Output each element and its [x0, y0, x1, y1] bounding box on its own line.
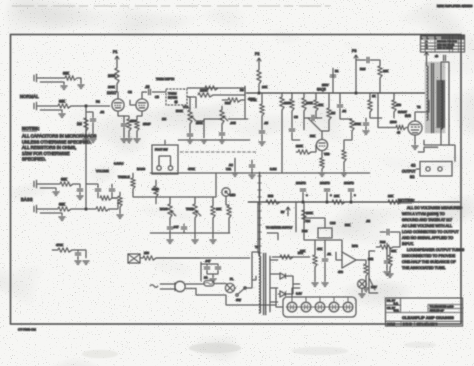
svg-text:.02: .02 — [145, 85, 150, 89]
wire — [194, 197, 196, 233]
wire — [156, 257, 250, 259]
wire — [225, 196, 227, 205]
svg-text:1M: 1M — [331, 111, 336, 115]
revision table text — [426, 40, 457, 49]
resistor R20 grid — [396, 126, 406, 130]
svg-text:470: 470 — [396, 103, 401, 107]
wire — [344, 131, 352, 140]
wire — [362, 260, 366, 287]
svg-text:TREB: TREB — [186, 207, 194, 211]
svg-text:R19: R19 — [360, 67, 366, 71]
tube heater V1 — [287, 302, 297, 312]
pentode V3 output tube — [408, 121, 422, 135]
svg-text:UNLESS OTHERWISE SPECIFIED.: UNLESS OTHERWISE SPECIFIED. — [22, 139, 91, 144]
svg-text:5K6: 5K6 — [268, 194, 274, 198]
wire — [304, 117, 322, 119]
potentiometer BASS pot — [168, 204, 176, 218]
svg-text:R2: R2 — [96, 100, 100, 104]
ground — [201, 140, 208, 143]
tube heater V5 — [343, 302, 353, 312]
potentiometer TREBLE pot — [193, 204, 201, 218]
svg-text:220K: 220K — [284, 101, 291, 105]
output jack box — [420, 162, 452, 177]
heater wire — [286, 306, 352, 308]
wire — [291, 93, 293, 128]
svg-text:SHT 1 OF 1: SHT 1 OF 1 — [417, 323, 430, 326]
wire — [251, 160, 253, 174]
wire — [228, 118, 248, 120]
wire — [133, 196, 145, 198]
svg-text:1K: 1K — [372, 94, 376, 98]
svg-text:6V6GT: 6V6GT — [398, 110, 407, 114]
svg-text:100K: 100K — [306, 101, 313, 105]
input jack J1 (normal ch, top) — [37, 77, 65, 79]
ground — [121, 139, 128, 142]
svg-text:W.M.: W.M. — [394, 310, 400, 313]
svg-text:R32: R32 — [380, 240, 386, 244]
wire plate V1A — [117, 86, 118, 99]
resistor R22 — [266, 200, 280, 204]
wire — [281, 93, 283, 173]
wire cable bundle — [259, 172, 261, 256]
resistor R6 — [96, 207, 109, 211]
pilot lamp — [225, 283, 234, 292]
output transformer T2 secondary — [441, 81, 443, 129]
wire — [187, 97, 196, 108]
svg-text:1/2W FOR OTHERWISE: 1/2W FOR OTHERWISE — [22, 151, 70, 156]
jack terminal — [157, 166, 161, 170]
output transformer T2 shade light — [425, 62, 445, 133]
wire B+ rail — [246, 92, 425, 94]
svg-text:20MFD: 20MFD — [296, 181, 307, 185]
wire — [164, 140, 166, 145]
svg-text:56K: 56K — [310, 134, 315, 138]
wire — [218, 106, 222, 119]
wire — [77, 250, 79, 260]
node — [258, 92, 260, 94]
wire — [112, 197, 118, 199]
ground — [126, 139, 133, 142]
ground — [210, 240, 217, 243]
wire — [295, 202, 297, 232]
wire — [321, 120, 329, 139]
capacitor C20 — [215, 267, 221, 269]
wire — [276, 288, 283, 307]
wire — [369, 278, 375, 290]
wire — [109, 200, 118, 209]
capacitor C4 bypass — [121, 124, 127, 126]
wire — [189, 124, 191, 133]
svg-text:470K: 470K — [188, 167, 195, 171]
power transformer T1 primary — [259, 256, 261, 313]
wire — [183, 224, 185, 233]
input jack J4 (bass ch, bottom) — [37, 208, 58, 210]
svg-text:WITH A VTVM (±20%) TO: WITH A VTVM (±20%) TO — [402, 212, 445, 216]
capacitor C12 electrolytic — [324, 189, 330, 202]
svg-text:R.S.: R.S. — [394, 302, 399, 305]
svg-text:PL: PL — [230, 277, 234, 281]
svg-text:47K: 47K — [317, 247, 322, 251]
svg-text:NOTES:: NOTES: — [22, 126, 40, 131]
wire phase splitter diagonal — [308, 118, 321, 131]
svg-text:+: + — [306, 193, 308, 197]
wire — [52, 250, 86, 258]
svg-text:C16: C16 — [330, 221, 336, 225]
output transformer T2 shade dark — [437, 80, 446, 128]
resistor R36 — [205, 86, 218, 90]
resistor R25 — [131, 178, 135, 189]
potentiometer MIDDLE pot — [222, 188, 230, 196]
wire — [123, 116, 125, 138]
resistor R17 — [320, 158, 324, 169]
resistor R30 — [313, 255, 317, 267]
smudge — [404, 342, 436, 348]
svg-text:3.3M: 3.3M — [270, 167, 277, 171]
wire — [213, 86, 245, 119]
wire — [226, 283, 228, 285]
svg-text:T2: T2 — [417, 105, 421, 109]
wire — [314, 240, 316, 282]
wire — [393, 93, 395, 118]
wire — [86, 184, 98, 198]
resistor R41 — [118, 196, 122, 207]
resistor R28 — [227, 206, 231, 218]
triode V2 — [316, 139, 327, 150]
svg-text:BASS: BASS — [21, 197, 33, 202]
svg-text:5Y3: 5Y3 — [298, 251, 303, 255]
ground — [387, 274, 394, 277]
wire pot1 wiper out — [196, 119, 218, 121]
wire — [40, 110, 62, 113]
wire — [324, 240, 326, 282]
svg-text:C11: C11 — [226, 167, 231, 171]
wire — [214, 283, 226, 286]
svg-text:C2: C2 — [128, 90, 132, 94]
svg-text:12AX7: 12AX7 — [107, 91, 117, 95]
capacitor C5 coupling — [149, 89, 151, 95]
svg-text:10K: 10K — [334, 194, 339, 198]
wire — [267, 233, 278, 240]
capacitor C8 — [312, 115, 314, 121]
capacitor C2 — [77, 189, 83, 191]
ground — [322, 283, 329, 286]
wire — [380, 232, 400, 240]
ground — [83, 261, 90, 264]
wire cathode V1A — [118, 111, 129, 119]
wire T2 secondary lead — [448, 62, 450, 145]
triode V1A — [112, 99, 124, 111]
svg-text:.01: .01 — [327, 252, 331, 256]
supply arrow P3 — [354, 55, 358, 63]
wire — [132, 173, 134, 178]
ground — [249, 175, 256, 178]
wire — [258, 84, 260, 93]
resistor R35 — [58, 248, 72, 252]
terminal — [175, 101, 178, 104]
wire — [315, 93, 317, 118]
svg-text:AC LINE VOLTAGE WITH ALL: AC LINE VOLTAGE WITH ALL — [402, 224, 452, 228]
svg-text:REVISED PER ECN: REVISED PER ECN — [437, 41, 457, 43]
svg-text:56K: 56K — [345, 223, 350, 227]
ground — [232, 173, 239, 176]
wire — [40, 82, 64, 85]
supply arrow P4 — [286, 207, 290, 216]
wire — [296, 145, 316, 152]
svg-text:68K: 68K — [61, 178, 68, 182]
resistor R14 — [280, 97, 284, 110]
wire feedback bus — [150, 172, 370, 174]
ground — [75, 261, 82, 264]
potentiometer VOLUME — [188, 110, 196, 124]
wire — [416, 168, 420, 170]
wire — [132, 189, 134, 197]
heater stub — [292, 297, 348, 302]
wire — [34, 180, 37, 188]
wire — [365, 118, 367, 130]
svg-text:+: + — [330, 193, 332, 197]
resistor R7 — [100, 196, 112, 200]
wire — [427, 58, 450, 81]
supply arrow P1 — [115, 56, 119, 64]
wire — [221, 124, 223, 132]
svg-text:10K: 10K — [216, 207, 221, 211]
ground — [384, 272, 391, 275]
svg-text:LOUDSPEAKER OUTPUT TUBES: LOUDSPEAKER OUTPUT TUBES — [407, 248, 465, 252]
capacitor C13 electrolytic — [348, 189, 354, 202]
capacitor C1 — [90, 119, 96, 121]
input jack J3 (bass ch, top) — [37, 183, 60, 185]
capacitor C25 — [330, 75, 336, 77]
wire — [112, 184, 118, 198]
wire — [252, 252, 259, 280]
drawing border frame — [11, 35, 462, 325]
svg-text:5V: 5V — [281, 210, 285, 214]
wire — [150, 232, 230, 234]
resistor R24 — [388, 200, 401, 204]
svg-text:25MF: 25MF — [143, 122, 151, 126]
svg-text:P1: P1 — [113, 50, 117, 54]
resistor R44 — [260, 104, 264, 116]
svg-text:TO HEATER SUPPLY: TO HEATER SUPPLY — [266, 226, 292, 230]
svg-text:470K: 470K — [56, 243, 63, 247]
ground — [83, 139, 90, 142]
cable ties — [258, 176, 262, 253]
wire — [336, 240, 342, 260]
svg-text:2A: 2A — [204, 276, 208, 280]
capacitor C9 — [337, 105, 343, 107]
resistor R11 — [198, 93, 213, 97]
svg-text:220K: 220K — [296, 144, 303, 148]
wire ch1-ch2 tie — [85, 106, 87, 209]
wire — [71, 208, 96, 210]
wire — [34, 102, 37, 110]
svg-text:SPECIFIED.: SPECIFIED. — [22, 157, 46, 162]
svg-text:100K: 100K — [108, 85, 115, 89]
wire — [321, 169, 323, 172]
svg-text:BASS: BASS — [137, 167, 145, 171]
capacitor C23 — [109, 189, 115, 191]
node — [326, 201, 328, 203]
wire tone bus — [145, 196, 216, 198]
ground — [77, 196, 84, 199]
resistor R40 — [368, 100, 372, 112]
svg-text:500K: 500K — [176, 109, 183, 113]
title block small text — [387, 300, 454, 326]
wire ground bus — [178, 139, 250, 141]
wire — [187, 87, 245, 89]
wire grid V1B — [130, 100, 136, 105]
svg-text:MID: MID — [230, 193, 235, 197]
node — [302, 201, 304, 203]
node A junction — [85, 105, 87, 107]
svg-text:CLEANFLIP AMP CHASSIS: CLEANFLIP AMP CHASSIS — [402, 315, 454, 320]
capacitor C6 — [187, 134, 193, 136]
tube heater V3 — [315, 302, 325, 312]
ground — [192, 240, 199, 243]
svg-text:LOAD CONNECTED TO OUTPUT: LOAD CONNECTED TO OUTPUT — [402, 230, 459, 234]
wire — [235, 280, 252, 288]
ground — [341, 173, 348, 176]
ground — [259, 142, 266, 145]
capacitor C22 — [363, 123, 369, 125]
wire — [79, 192, 81, 195]
svg-text:1500: 1500 — [390, 120, 397, 124]
ground — [210, 279, 217, 282]
svg-text:SCALE: SCALE — [387, 323, 395, 326]
wire — [389, 247, 391, 273]
wire — [278, 274, 300, 294]
svg-text:THE ASSOCIATED TUBE.: THE ASSOCIATED TUBE. — [402, 266, 446, 270]
wire — [376, 240, 400, 247]
bias box — [128, 254, 140, 263]
wire — [86, 112, 93, 118]
resistor R42 — [314, 100, 318, 111]
capacitor C16 — [322, 259, 328, 261]
ground — [359, 294, 366, 297]
wire — [355, 63, 357, 93]
resistor R23 — [332, 200, 345, 204]
node — [350, 201, 352, 203]
wire — [155, 180, 157, 204]
resistor R33 — [388, 255, 392, 267]
svg-text:ALL RESISTORS IN OHMS,: ALL RESISTORS IN OHMS, — [22, 145, 76, 150]
AC cord — [150, 285, 158, 288]
wire — [303, 202, 305, 240]
resistor R1 — [65, 76, 77, 80]
diode D1 — [280, 273, 286, 279]
capacitor C18 — [75, 253, 81, 255]
svg-text:6AQ5: 6AQ5 — [317, 88, 326, 92]
capacitor C7 — [219, 133, 225, 135]
jack terminal — [168, 166, 172, 170]
wire — [370, 93, 382, 118]
output terminal — [426, 167, 430, 171]
svg-text:68K: 68K — [63, 72, 70, 76]
wire — [92, 122, 94, 138]
svg-text:1500: 1500 — [130, 119, 137, 123]
svg-text:R29: R29 — [302, 229, 308, 233]
heater box — [283, 297, 356, 317]
svg-text:6V6: 6V6 — [405, 114, 411, 118]
wire — [369, 251, 378, 293]
ground — [61, 86, 68, 89]
output transformer T2 core — [432, 63, 434, 133]
svg-text:INTEN: INTEN — [168, 96, 177, 100]
fuse F1 — [204, 281, 214, 287]
wire — [332, 68, 334, 93]
wire — [328, 93, 330, 108]
wire — [40, 213, 62, 216]
wire plate V3 — [415, 100, 429, 121]
svg-text:ONE-HALF THE GUIDANCE OF: ONE-HALF THE GUIDANCE OF — [402, 260, 456, 264]
svg-text:FOOT SW: FOOT SW — [155, 148, 168, 152]
wire — [222, 99, 245, 101]
wire — [386, 243, 388, 271]
resistor R4 — [60, 182, 73, 186]
svg-text:SW: SW — [236, 298, 241, 302]
svg-text:10MFD: 10MFD — [344, 181, 355, 185]
ground — [363, 288, 370, 291]
resistor R16 — [327, 108, 331, 120]
footswitch box — [152, 145, 178, 174]
capacitor C21 — [289, 129, 295, 131]
resistor R26 — [154, 186, 158, 197]
wire filter rail — [248, 201, 460, 203]
input jack J2 (normal ch, bottom) — [37, 105, 58, 107]
capacitor C15 — [181, 227, 187, 229]
diode D2 — [280, 291, 286, 297]
resistor R32 — [380, 245, 393, 249]
resistor R9 cathode — [127, 119, 131, 131]
svg-text:TOLERANCES ±.010: TOLERANCES ±.010 — [430, 306, 454, 309]
svg-text:CT-7685-OM: CT-7685-OM — [18, 328, 36, 332]
wire — [361, 288, 363, 293]
svg-text:ALL DC VOLTAGES MEASURED: ALL DC VOLTAGES MEASURED — [407, 206, 462, 210]
svg-text:NFB: NFB — [352, 244, 358, 248]
wire — [128, 131, 130, 138]
revision table — [421, 35, 465, 52]
wire — [378, 93, 392, 128]
svg-text:CHG C4 VALUE: CHG C4 VALUE — [437, 47, 453, 50]
svg-text:REV C: REV C — [430, 323, 438, 326]
svg-text:DISCONNECTED TO PROVIDE: DISCONNECTED TO PROVIDE — [402, 254, 456, 258]
svg-text:VOL: VOL — [183, 105, 189, 109]
svg-text:68K: 68K — [59, 100, 66, 104]
svg-text:BASS: BASS — [160, 207, 168, 211]
resistor R18 — [350, 119, 354, 131]
T1 taps — [270, 260, 278, 302]
smudge — [82, 350, 118, 358]
svg-text:+: + — [354, 193, 356, 197]
svg-text:20MFD: 20MFD — [320, 181, 331, 185]
capacitor C28 — [384, 261, 390, 263]
resistor R29 — [302, 210, 306, 223]
AC plug P1 — [160, 281, 185, 291]
svg-text:R12: R12 — [225, 101, 231, 105]
wire — [119, 192, 121, 214]
svg-text:AC: AC — [229, 163, 233, 167]
capacitor C10 — [367, 57, 369, 63]
svg-text:ALL CAPACITORS IN MICROFARADS: ALL CAPACITORS IN MICROFARADS — [22, 134, 97, 139]
svg-text:C5: C5 — [155, 95, 159, 99]
resistor R31 — [364, 264, 368, 276]
resistor R39 — [342, 150, 346, 162]
svg-text:22K: 22K — [383, 69, 388, 73]
svg-text:B1: B1 — [335, 69, 339, 73]
wire cathode V1B — [137, 111, 142, 120]
svg-text:NOTES:: NOTES: — [398, 198, 415, 203]
power transformer T1 secondary — [269, 256, 271, 312]
